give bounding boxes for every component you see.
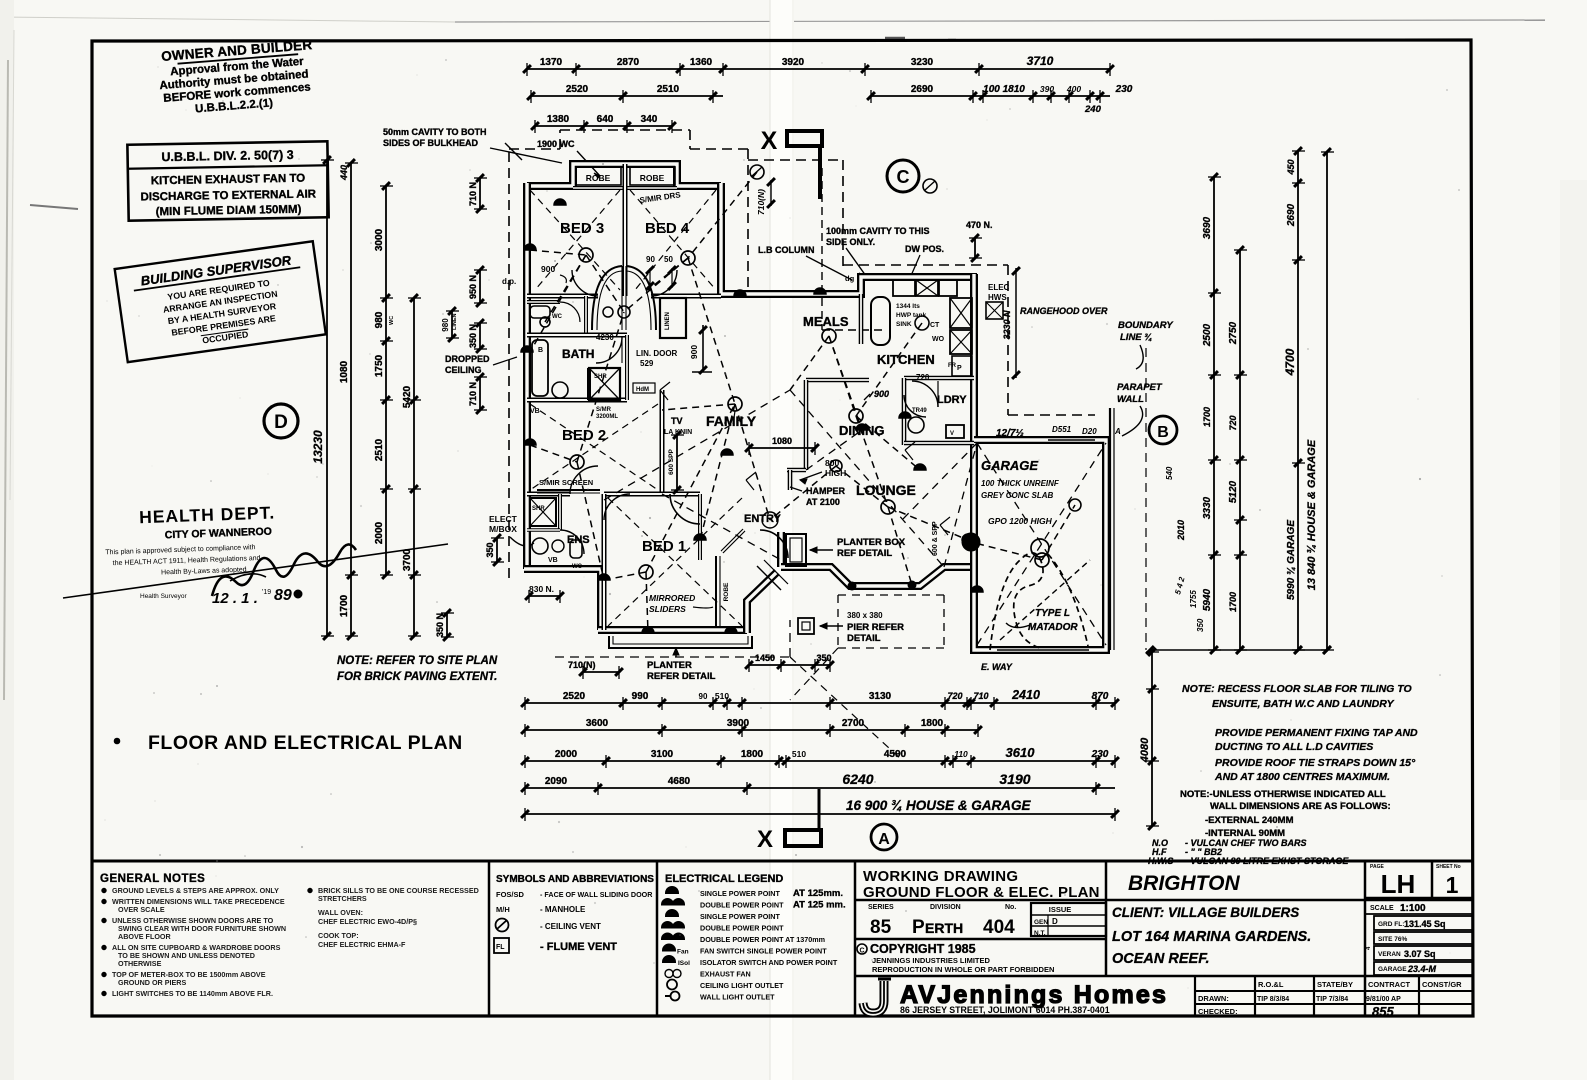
wall	[651, 294, 721, 299]
wall	[698, 494, 702, 560]
AVJennings logo J	[863, 981, 884, 1013]
svg-text:720: 720	[916, 373, 930, 382]
dashed diag bottom	[790, 657, 902, 760]
svg-text:900: 900	[541, 264, 555, 274]
svg-text:SINK: SINK	[896, 321, 912, 328]
svg-text:REFER DETAIL: REFER DETAIL	[647, 671, 716, 682]
svg-text:ABOVE FLOOR: ABOVE FLOOR	[118, 932, 172, 941]
svg-text:350: 350	[816, 653, 831, 663]
wall	[747, 572, 777, 633]
svg-text:ROBE: ROBE	[640, 173, 665, 183]
svg-text:510: 510	[792, 749, 806, 759]
svg-text:GROUND FLOOR & ELEC. PLAN: GROUND FLOOR & ELEC. PLAN	[863, 884, 1100, 901]
title block: top separation line	[92, 860, 1473, 863]
svg-text:ISol: ISol	[678, 960, 690, 967]
svg-text:ELEC: ELEC	[988, 283, 1010, 292]
light outlet hall	[618, 306, 630, 318]
svg-text:Fan: Fan	[677, 949, 689, 956]
svg-text:P: P	[957, 365, 962, 372]
dashed cross garage	[977, 443, 1106, 645]
health surveyor signature	[212, 544, 356, 596]
svg-text:350 N: 350 N	[435, 613, 445, 637]
dimension line	[479, 377, 481, 410]
svg-text:PLANTER: PLANTER	[647, 660, 692, 671]
dimension line	[527, 68, 1110, 70]
svg-text:D551: D551	[1052, 425, 1072, 434]
svg-text:- CEILING VENT: - CEILING VENT	[540, 922, 601, 931]
svg-text:HWS: HWS	[988, 293, 1007, 302]
svg-text:TIP 7/3/84: TIP 7/3/84	[1316, 996, 1348, 1003]
dimension line	[749, 447, 815, 449]
svg-text:PROVIDE PERMANENT FIXING TAP: PROVIDE PERMANENT FIXING TAP AND	[1215, 727, 1418, 739]
general notes bullet list column 2	[308, 888, 312, 892]
svg-text:2000: 2000	[374, 521, 385, 544]
svg-text:CONST/GR: CONST/GR	[1422, 980, 1462, 989]
svg-text:CEILING LIGHT OUTLET: CEILING LIGHT OUTLET	[700, 981, 784, 990]
svg-text:WC: WC	[552, 314, 563, 320]
svg-text:S/MR: S/MR	[596, 407, 612, 413]
svg-text:2410: 2410	[1011, 688, 1040, 702]
svg-text:AND AT 1800 CENTRES MAXIMUM.: AND AT 1800 CENTRES MAXIMUM.	[1214, 771, 1390, 783]
vent circle c area	[923, 179, 937, 193]
dimension line	[529, 595, 560, 597]
svg-text:VB: VB	[548, 557, 558, 564]
svg-text:DW POS.: DW POS.	[905, 244, 944, 254]
svg-text:OTHERWISE: OTHERWISE	[118, 959, 162, 968]
stamp: UBBL kitchen exhaust note box	[127, 141, 328, 220]
laundry door arc	[912, 381, 938, 407]
svg-text:1380: 1380	[547, 114, 570, 125]
svg-text:STRETCHERS: STRETCHERS	[318, 894, 367, 903]
svg-text:3920: 3920	[782, 57, 805, 68]
wall	[625, 335, 629, 400]
wall	[527, 492, 570, 497]
svg-text:5420: 5420	[402, 385, 413, 408]
svg-text:89: 89	[274, 587, 292, 604]
svg-text:3.07 Sq: 3.07 Sq	[1404, 949, 1436, 959]
wall	[804, 380, 809, 470]
drawn/checked table	[1194, 976, 1196, 1016]
dimension line	[1297, 151, 1299, 650]
svg-text:440: 440	[339, 165, 349, 181]
svg-text:1370: 1370	[540, 57, 563, 68]
svg-text:1080: 1080	[772, 436, 792, 446]
svg-text:13230: 13230	[311, 430, 325, 464]
bath door arc	[596, 337, 622, 363]
light outlet bed3	[579, 248, 593, 262]
svg-text:2520: 2520	[563, 691, 586, 702]
dim 900 meals opening	[702, 325, 704, 372]
svg-text:86 JERSEY STREET, JOLIMONT: 86 JERSEY STREET, JOLIMONT 6014 PH.387-0…	[900, 1005, 1110, 1015]
svg-text:13 840 ¾ HOUSE & GARAGE: 13 840 ¾ HOUSE & GARAGE	[1306, 439, 1318, 590]
wall	[573, 186, 677, 190]
dimension line	[451, 311, 453, 338]
svg-text:4680: 4680	[668, 776, 691, 787]
svg-text:GROUND OR PIERS: GROUND OR PIERS	[118, 978, 186, 987]
svg-text:SIDES OF BULKHEAD: SIDES OF BULKHEAD	[383, 138, 479, 148]
svg-text:A: A	[1114, 427, 1121, 436]
scan speckle noise	[546, 190, 548, 192]
svg-text:U.B.B.L. DIV. 2. 50(7) 3: U.B.B.L. DIV. 2. 50(7) 3	[161, 148, 293, 164]
light outlet meals	[822, 329, 836, 343]
light outlet family	[728, 397, 742, 411]
svg-text:X: X	[761, 127, 778, 155]
svg-text:MEALS: MEALS	[803, 314, 849, 329]
dimension line	[525, 787, 1115, 789]
wall	[970, 274, 978, 443]
svg-text:KITCHEN: KITCHEN	[877, 352, 935, 367]
svg-text:-EXTERNAL 240MM: -EXTERNAL 240MM	[1205, 815, 1294, 826]
svg-text:WC: WC	[572, 564, 583, 570]
svg-text:3710: 3710	[1027, 54, 1054, 68]
dimension line	[525, 760, 1115, 762]
svg-text:M/H: M/H	[496, 905, 510, 914]
dimension line	[479, 178, 481, 209]
elec hws box	[986, 302, 1003, 319]
svg-text:JENNINGS INDUSTRIES LIMITED: JENNINGS INDUSTRIES LIMITED	[872, 956, 991, 965]
svg-text:LOUNGE: LOUNGE	[856, 482, 916, 498]
svg-text:SHR: SHR	[532, 506, 545, 512]
svg-text:CLIENT: VILLAGE BUILDERS: CLIENT: VILLAGE BUILDERS	[1112, 905, 1299, 920]
svg-text:V: V	[950, 431, 954, 437]
svg-text:1800: 1800	[741, 749, 764, 760]
wall	[974, 440, 1106, 650]
svg-text:N.T.: N.T.	[1034, 930, 1046, 937]
svg-text:D: D	[1052, 917, 1058, 926]
svg-text:470 N.: 470 N.	[966, 220, 993, 230]
svg-text:2090: 2090	[545, 776, 568, 787]
dimension line	[1326, 152, 1328, 650]
svg-text:D: D	[274, 412, 288, 433]
svg-text:350: 350	[485, 542, 495, 557]
svg-text:ERTH: ERTH	[925, 920, 963, 936]
svg-text:100 THICK UNREINF: 100 THICK UNREINF	[981, 479, 1060, 488]
ceiling vent symbol	[496, 919, 509, 932]
svg-text:240: 240	[1084, 104, 1102, 115]
svg-text:Health Surveyor: Health Surveyor	[140, 593, 187, 600]
svg-text:WO: WO	[932, 336, 945, 343]
wall	[524, 569, 601, 630]
bath vb	[552, 382, 568, 398]
svg-text:LA KNIN: LA KNIN	[664, 429, 692, 436]
light outlet lounge	[881, 500, 895, 514]
svg-text:230: 230	[1091, 749, 1109, 760]
svg-text:720: 720	[1228, 415, 1238, 430]
svg-text:BED 2: BED 2	[562, 427, 606, 444]
dashed run arrows	[660, 382, 670, 400]
bed1 door arc	[604, 494, 630, 520]
svg-text:4080: 4080	[1139, 737, 1151, 763]
svg-text:M/BOX: M/BOX	[489, 524, 517, 534]
wall	[777, 532, 785, 567]
wall	[904, 376, 974, 381]
svg-text:3610: 3610	[1006, 745, 1036, 760]
wall	[787, 468, 806, 473]
svg-text:710 N: 710 N	[468, 382, 478, 406]
svg-text:5990 ¾ GARAGE: 5990 ¾ GARAGE	[1286, 520, 1297, 600]
svg-text:CHEF ELECTRIC EHMA-F: CHEF ELECTRIC EHMA-F	[318, 940, 406, 949]
dimension line	[385, 186, 387, 575]
svg-text:HIGH: HIGH	[825, 468, 846, 478]
dashed boundary right	[1145, 348, 1147, 650]
svg-text:529: 529	[640, 359, 654, 368]
svg-text:BED 3: BED 3	[560, 220, 604, 237]
parapet wall beyond garage	[1109, 408, 1111, 650]
label 710(N) verandah	[770, 180, 772, 206]
svg-text:870: 870	[1092, 691, 1109, 702]
svg-text:1700: 1700	[1228, 592, 1238, 612]
svg-text:NOTE: RECESS FLOOR SLAB FOR T: NOTE: RECESS FLOOR SLAB FOR TILING TO	[1182, 683, 1412, 695]
svg-text:110: 110	[954, 749, 968, 759]
svg-text:HdM: HdM	[636, 387, 649, 393]
svg-text:DOUBLE POWER POINT: DOUBLE POWER POINT	[700, 901, 784, 910]
svg-text:720: 720	[947, 691, 962, 701]
svg-text:3230: 3230	[911, 57, 934, 68]
svg-text:6240: 6240	[842, 771, 873, 787]
svg-text:1450: 1450	[755, 653, 775, 663]
garage tilt door curve	[990, 553, 1043, 650]
svg-text:dg: dg	[845, 274, 855, 283]
svg-text:C: C	[859, 948, 864, 955]
svg-text:SERIES: SERIES	[868, 904, 894, 911]
svg-text:510: 510	[715, 691, 729, 701]
svg-text:DRAWN:: DRAWN:	[1198, 994, 1229, 1003]
svg-text:HAMPER: HAMPER	[806, 486, 846, 496]
eaves dashed outline left	[508, 152, 510, 578]
svg-text:ROBE: ROBE	[586, 173, 611, 183]
dashed planter/paving outline	[838, 594, 944, 596]
svg-text:ROBE: ROBE	[723, 582, 730, 601]
power point blobs	[524, 244, 536, 250]
bed2 sliding screen line	[537, 489, 600, 491]
title block: electrical legend divider	[854, 861, 857, 1016]
svg-text:1080: 1080	[339, 360, 350, 383]
svg-text:ELECT: ELECT	[489, 514, 518, 524]
svg-text:5120: 5120	[1228, 480, 1239, 503]
svg-text:3700: 3700	[402, 548, 413, 571]
hall arch curves	[592, 266, 622, 330]
stamp: health dept	[104, 502, 277, 578]
issue box	[1031, 903, 1106, 936]
svg-text:990: 990	[632, 691, 649, 702]
wall	[527, 528, 560, 531]
svg-text:SINGLE POWER POINT: SINGLE POWER POINT	[700, 912, 780, 921]
electrical legend row: DOUBLE POWER POINT AT 1370mm	[662, 934, 673, 939]
svg-text:350: 350	[1196, 618, 1205, 632]
electrical legend row: ISOLATOR SWITCH AND POWER POINT	[663, 956, 675, 962]
light outlet dining	[849, 409, 863, 423]
svg-text:90: 90	[646, 255, 655, 264]
grid node A	[871, 824, 897, 850]
dimension line	[1151, 652, 1153, 826]
svg-text:ENSUITE, BATH W.C AND LAUNDRY: ENSUITE, BATH W.C AND LAUNDRY	[1212, 698, 1395, 710]
wall	[781, 567, 977, 586]
wall	[587, 368, 591, 400]
svg-text:3100: 3100	[651, 749, 674, 760]
kitchen ct circle	[915, 316, 929, 330]
signature strike line	[63, 544, 448, 598]
bed4 door arc	[651, 270, 677, 296]
svg-text:23.4-M: 23.4-M	[1407, 964, 1437, 974]
kitchen hws cylinder	[871, 297, 890, 345]
bath tub	[532, 340, 548, 396]
svg-text:BRIGHTON: BRIGHTON	[1128, 872, 1240, 895]
svg-text:5940: 5940	[1202, 588, 1213, 611]
laundry fixtures	[908, 417, 924, 433]
svg-text:B: B	[1157, 424, 1169, 441]
svg-text:COOK TOP:: COOK TOP:	[318, 931, 359, 940]
dimension line	[479, 323, 481, 349]
svg-text:- FACE OF WALL SLIDING DOOR: - FACE OF WALL SLIDING DOOR	[540, 890, 653, 899]
svg-text:CHEF ELECTRIC EWO-4D/P§: CHEF ELECTRIC EWO-4D/P§	[318, 917, 417, 926]
scan artifact: small marks top	[885, 37, 905, 40]
svg-text:CT: CT	[930, 322, 940, 329]
svg-text:DETAIL: DETAIL	[847, 633, 881, 644]
wall	[527, 398, 627, 403]
dimension line	[525, 702, 1115, 704]
electrical legend row: DOUBLE POWER POINT	[662, 899, 673, 905]
svg-text:1900 WC: 1900 WC	[537, 139, 575, 149]
svg-text:1800: 1800	[921, 718, 944, 729]
svg-text:LH: LH	[1381, 869, 1416, 899]
svg-text:PROVIDE ROOF TIE STRAPS DOWN 1: PROVIDE ROOF TIE STRAPS DOWN 15°	[1215, 757, 1416, 769]
svg-text:B: B	[538, 347, 543, 354]
svg-text:2510: 2510	[657, 84, 680, 95]
svg-text:980: 980	[374, 311, 385, 328]
ens wc	[570, 540, 582, 558]
svg-text:DIVISION: DIVISION	[930, 904, 961, 911]
svg-text:50mm CAVITY TO BOTH: 50mm CAVITY TO BOTH	[383, 127, 487, 137]
grid node C	[887, 160, 919, 192]
svg-text:ISOLATOR SWITCH AND POWER POIN: ISOLATOR SWITCH AND POWER POINT	[700, 958, 838, 967]
garage door opening (thin line)	[997, 649, 1089, 651]
svg-text:LINEN: LINEN	[665, 312, 671, 330]
svg-text:540: 540	[1165, 466, 1174, 480]
svg-text:1700: 1700	[1202, 407, 1212, 427]
svg-text:- MANHOLE: - MANHOLE	[540, 905, 586, 914]
svg-text:3600: 3600	[586, 718, 609, 729]
svg-text:FOS/SD: FOS/SD	[496, 890, 525, 899]
electrical legend row: SINGLE POWER POINT	[666, 887, 678, 893]
svg-text:830 N.: 830 N.	[529, 584, 554, 594]
svg-text:1:100: 1:100	[1400, 903, 1426, 914]
scan artifact: left edge streaks	[0, 0, 14, 1080]
svg-text:GARAGE: GARAGE	[981, 458, 1038, 473]
scan artifact: right edge	[1560, 180, 1587, 800]
bed1 robe sliders (right side closet)	[715, 556, 717, 626]
svg-text:404: 404	[983, 917, 1015, 938]
svg-text:SYMBOLS AND ABBREVIATIONS: SYMBOLS AND ABBREVIATIONS	[496, 874, 654, 885]
svg-text:1700: 1700	[339, 594, 350, 617]
wall	[859, 294, 864, 344]
svg-text:VB: VB	[530, 408, 540, 415]
wall	[527, 333, 627, 338]
svg-text:R.O.&L: R.O.&L	[1258, 980, 1284, 989]
svg-text:LOT 164 MARINA GARDENS.: LOT 164 MARINA GARDENS.	[1112, 929, 1311, 945]
dimension line	[326, 160, 328, 636]
svg-text:WORKING DRAWING: WORKING DRAWING	[863, 868, 1018, 885]
dimension line	[446, 613, 448, 637]
svg-text:3190: 3190	[999, 771, 1030, 787]
svg-text:2510: 2510	[374, 438, 385, 461]
svg-text:COPYRIGHT 1985: COPYRIGHT 1985	[870, 942, 976, 956]
svg-text:- FLUME VENT: - FLUME VENT	[540, 941, 617, 953]
flume vent symbol	[494, 938, 509, 953]
svg-text:131.45 Sq: 131.45 Sq	[1404, 919, 1446, 929]
svg-text:AT 125 mm.: AT 125 mm.	[793, 900, 846, 911]
eaves dashed outline top	[509, 148, 560, 150]
svg-text:SHEET No: SHEET No	[1436, 864, 1461, 870]
planter box left of lounge	[786, 534, 806, 566]
svg-text:SIDE ONLY.: SIDE ONLY.	[826, 237, 875, 247]
ens vb	[532, 538, 548, 554]
wall	[527, 294, 598, 299]
grid node B	[1149, 416, 1177, 444]
interior wall: linen closet	[660, 298, 686, 338]
svg-text:ELECTRICAL LEGEND: ELECTRICAL LEGEND	[665, 873, 783, 885]
copyright block	[857, 944, 867, 954]
garage top door D20	[1048, 439, 1095, 441]
porch entry steps	[757, 566, 781, 590]
svg-text:CONTRACT: CONTRACT	[1368, 980, 1410, 989]
svg-text:WALL: WALL	[1117, 394, 1144, 405]
svg-text:450: 450	[1286, 159, 1296, 175]
svg-text:OVER SCALE: OVER SCALE	[118, 905, 165, 914]
ens shower	[530, 498, 556, 526]
svg-text:ISSUE: ISSUE	[1049, 905, 1072, 914]
svg-text:FL: FL	[496, 944, 505, 951]
title block: symbols cell divider	[656, 861, 659, 1016]
svg-text:1750: 1750	[374, 354, 385, 377]
svg-text:855: 855	[1372, 1004, 1394, 1019]
wall	[721, 183, 977, 294]
stamp: building supervisor box	[115, 241, 326, 362]
svg-text:E. WAY: E. WAY	[981, 662, 1013, 672]
svg-text:MIRRORED: MIRRORED	[649, 593, 695, 603]
svg-text:1755: 1755	[1189, 590, 1198, 608]
svg-text:2500: 2500	[1202, 323, 1213, 347]
svg-text:CHECKED:: CHECKED:	[1198, 1007, 1238, 1016]
electrical legend row: WALL LIGHT OUTLET	[671, 992, 680, 1001]
svg-text:TV: TV	[671, 416, 683, 426]
svg-text:FR: FR	[948, 363, 957, 369]
electrical legend row: DOUBLE POWER POINT	[662, 922, 673, 928]
bed3 door arc	[572, 270, 598, 296]
svg-text:2690: 2690	[1286, 203, 1297, 227]
scan artifact: centre fold light band	[770, 0, 794, 1080]
svg-text:A: A	[878, 831, 890, 848]
electrical legend row: SINGLE POWER POINT	[666, 910, 678, 916]
svg-text:1360: 1360	[690, 57, 713, 68]
svg-text:GREY CONC SLAB: GREY CONC SLAB	[981, 491, 1054, 500]
svg-text:No.: No.	[1005, 904, 1016, 911]
svg-text:GENERAL NOTES: GENERAL NOTES	[100, 873, 205, 885]
dimension line	[525, 729, 978, 731]
svg-text:SITE 76%: SITE 76%	[1378, 936, 1407, 943]
svg-text:2870: 2870	[617, 57, 640, 68]
kitchen right appliances	[950, 298, 972, 328]
svg-text:350 N: 350 N	[468, 324, 478, 348]
svg-text:LIGHT SWITCHES TO BE 1140mm AB: LIGHT SWITCHES TO BE 1140mm ABOVE FLR.	[112, 989, 273, 998]
junction blob garage	[962, 533, 980, 551]
svg-text:400: 400	[1066, 84, 1081, 94]
svg-text:2000: 2000	[555, 749, 578, 760]
svg-text:900: 900	[689, 345, 699, 359]
svg-text:85: 85	[870, 917, 892, 938]
svg-text:LIN. DOOR: LIN. DOOR	[636, 349, 678, 358]
wall	[623, 164, 628, 296]
svg-text:FOR BRICK PAVING EXTENT.: FOR BRICK PAVING EXTENT.	[337, 671, 497, 683]
